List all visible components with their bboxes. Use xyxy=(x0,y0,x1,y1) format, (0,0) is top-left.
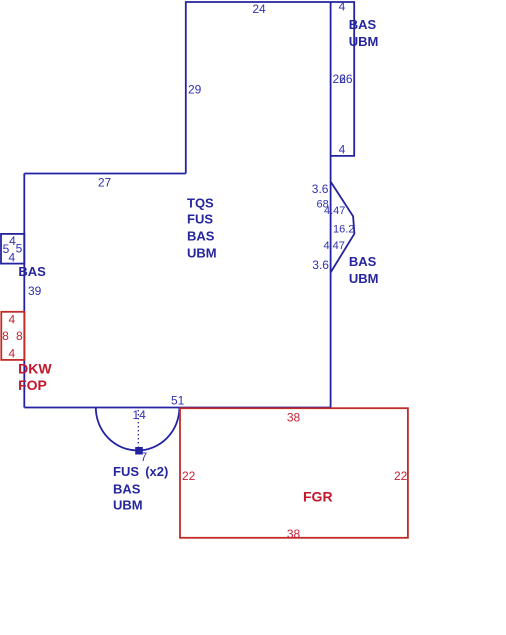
svg-text:FGR: FGR xyxy=(303,489,333,505)
svg-text:UBM: UBM xyxy=(349,34,379,49)
svg-text:BAS: BAS xyxy=(187,228,215,243)
svg-text:7: 7 xyxy=(141,450,148,464)
svg-text:22: 22 xyxy=(182,469,196,483)
svg-text:3.6: 3.6 xyxy=(312,258,329,272)
node small blue box 5445 xyxy=(1,234,24,264)
svg-text:UBM: UBM xyxy=(113,498,143,513)
wire semicircle arc xyxy=(96,408,180,451)
svg-text:(x2): (x2) xyxy=(145,464,168,479)
svg-text:39: 39 xyxy=(28,284,42,298)
svg-text:3.6: 3.6 xyxy=(312,182,329,196)
wire top outline: big rect top+left, narrow right annex xyxy=(186,2,354,174)
svg-text:4: 4 xyxy=(8,347,15,361)
wire dotted drop line xyxy=(137,410,139,447)
svg-text:UBM: UBM xyxy=(187,245,217,260)
svg-text:FOP: FOP xyxy=(18,377,47,393)
svg-text:4: 4 xyxy=(8,313,15,327)
wire left vertical xyxy=(23,174,25,408)
svg-text:51: 51 xyxy=(171,394,185,408)
svg-text:14: 14 xyxy=(133,408,147,422)
svg-text:5: 5 xyxy=(16,242,23,256)
svg-text:FUS: FUS xyxy=(187,211,213,226)
wire bottom horizontal xyxy=(24,407,330,409)
svg-text:26: 26 xyxy=(339,72,353,86)
svg-text:4: 4 xyxy=(339,0,346,14)
svg-text:TQS: TQS xyxy=(187,195,214,210)
svg-text:24: 24 xyxy=(252,2,266,16)
svg-text:38: 38 xyxy=(287,527,301,541)
svg-text:DKW: DKW xyxy=(18,361,52,377)
node bump polygon right side xyxy=(331,182,355,273)
node small red box 4884 xyxy=(1,312,24,360)
svg-text:BAS: BAS xyxy=(349,254,377,269)
node square marker xyxy=(135,447,143,455)
svg-text:8: 8 xyxy=(16,329,23,343)
svg-text:BAS: BAS xyxy=(349,17,377,32)
svg-text:FUS: FUS xyxy=(113,464,139,479)
svg-text:4.47: 4.47 xyxy=(324,240,345,252)
svg-text:BAS: BAS xyxy=(18,264,46,279)
svg-text:4.47: 4.47 xyxy=(324,205,345,217)
wire mid horizontal at 27 xyxy=(24,173,186,175)
svg-text:BAS: BAS xyxy=(113,481,141,496)
node FGR red rect xyxy=(180,408,408,538)
svg-text:27: 27 xyxy=(98,176,112,190)
svg-text:16.2: 16.2 xyxy=(333,224,354,236)
svg-text:38: 38 xyxy=(287,411,301,425)
svg-text:4: 4 xyxy=(339,143,346,157)
svg-text:22: 22 xyxy=(394,469,408,483)
svg-text:UBM: UBM xyxy=(349,271,379,286)
wire main right vertical xyxy=(330,2,332,408)
svg-text:8: 8 xyxy=(2,329,9,343)
svg-text:4: 4 xyxy=(8,251,15,265)
svg-text:29: 29 xyxy=(188,83,202,97)
